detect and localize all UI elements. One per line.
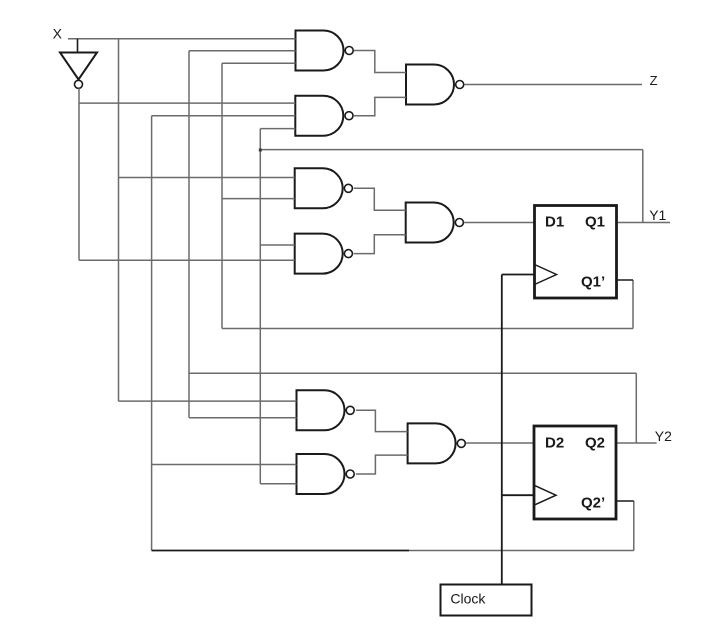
- wire G2 output to G5 pin2: [354, 97, 406, 115]
- NAND gate G7: [297, 390, 355, 430]
- wire Q1 feedback horizontal top: [260, 149, 643, 151]
- NAND gate G6: [406, 203, 464, 243]
- wire Q2-bar to G8 pin1: [152, 464, 297, 466]
- wire G9 output to D2 input: [466, 442, 534, 444]
- wire Q2-bar bottom horizontal right: [409, 550, 634, 552]
- inverter U1 (X input inverter): [60, 53, 97, 89]
- wire Q1-bar to G3 pin2: [222, 198, 295, 200]
- wire X to G3 pin1: [119, 177, 295, 179]
- NAND gate G8: [297, 454, 355, 494]
- wire X-bar to G4 pin2: [79, 259, 295, 261]
- clock source box: [441, 585, 532, 616]
- wire Q2 to G1 pin2: [189, 50, 296, 52]
- wire Q1 vertical trunk: [259, 129, 261, 484]
- wire Q1 output / Y1: [617, 222, 671, 224]
- wire Q2-bar to G2 pin2: [152, 115, 296, 117]
- wire Q2 feedback horizontal: [189, 372, 636, 374]
- wire X vertical trunk: [118, 39, 120, 402]
- wire Q1-bar pin stub: [617, 279, 634, 281]
- wire Q2 vertical trunk: [188, 51, 190, 418]
- wire G4 output to G6 pin2: [354, 235, 406, 254]
- wire Q1-bar vertical trunk: [221, 63, 223, 328]
- wire G1 output to G5 pin1: [354, 51, 406, 73]
- wire Q1-bar to G1 pin3: [222, 62, 296, 64]
- wire Q1 to G4 pin1: [260, 244, 294, 246]
- svg-text:Q2: Q2: [585, 435, 605, 452]
- wire G7 output to G9 pin1: [356, 410, 408, 431]
- svg-text:Y2: Y2: [655, 428, 672, 444]
- svg-text:Q1: Q1: [585, 214, 605, 231]
- wire clock to D1 clk pin: [502, 274, 535, 276]
- wire X-bar vertical trunk: [78, 88, 80, 260]
- wire Q1-bar feedback horizontal: [222, 328, 633, 330]
- wire clock vertical: [501, 275, 503, 585]
- wire X to G7 pin1: [119, 400, 297, 402]
- wire Q2-bar pin stub: [615, 500, 634, 502]
- wire Q2-bar bottom horizontal left: [152, 550, 409, 552]
- wire X input to G1 pin1: [68, 38, 296, 40]
- NAND gate G4: [295, 234, 353, 274]
- wire Q2-bar vertical trunk: [151, 116, 153, 551]
- svg-text:Clock: Clock: [450, 591, 486, 607]
- svg-text:X: X: [53, 25, 63, 41]
- NAND gate G3: [295, 168, 353, 208]
- wire Q1 feedback riser: [642, 150, 644, 223]
- wire G6 output to D1 input: [464, 222, 535, 224]
- wire Q2 feedback riser: [635, 373, 637, 443]
- NAND gate G1: [296, 31, 354, 71]
- NAND gate G9: [408, 423, 466, 463]
- junction dot Q1 trunk: [259, 149, 262, 152]
- wire G8 output to G9 pin2: [356, 455, 408, 474]
- wire Q2 output / Y2: [615, 442, 657, 444]
- svg-text:Y1: Y1: [649, 207, 666, 223]
- wire Z output: [464, 84, 642, 86]
- wire clock to D2 clk pin: [502, 494, 534, 496]
- wire Q2 to G7 pin2: [189, 417, 297, 419]
- svg-text:Q2’: Q2’: [581, 495, 605, 512]
- wire Q2-bar riser: [633, 501, 635, 551]
- wire G3 output to G6 pin1: [354, 188, 406, 210]
- D flip-flop D2: [534, 426, 616, 519]
- D flip-flop D1: [535, 206, 617, 299]
- wire X-bar to G2 pin1: [79, 102, 295, 104]
- NAND gate G2: [295, 96, 353, 136]
- svg-text:D1: D1: [545, 214, 564, 231]
- svg-text:Q1’: Q1’: [581, 274, 605, 291]
- NAND gate G5: [406, 65, 464, 105]
- wire Q1 to G2 pin3: [260, 128, 295, 130]
- wire Q1 to G8 pin2: [260, 483, 296, 485]
- svg-text:D2: D2: [545, 435, 564, 452]
- wire Q1-bar feedback riser: [632, 280, 634, 329]
- wire X to inverter input: [77, 39, 79, 53]
- svg-text:Z: Z: [650, 73, 658, 88]
